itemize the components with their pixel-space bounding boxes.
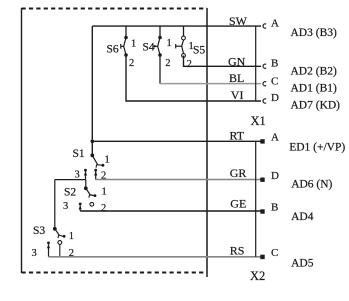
svg-text:C: C — [271, 247, 278, 259]
S3 contact 3 — [47, 242, 50, 245]
dashed enclosure bottom edge — [22, 272, 206, 274]
switch S2 — [63, 186, 107, 214]
S1 contact 2 — [94, 169, 97, 172]
connector X2 pin B — [260, 209, 264, 213]
svg-text:1: 1 — [102, 187, 107, 198]
svg-text:S5: S5 — [193, 45, 205, 57]
svg-text:AD1 (B1): AD1 (B1) — [291, 82, 337, 94]
switch S3 — [32, 225, 74, 259]
connector X1 bus — [255, 26, 257, 101]
node: junction RT — [91, 140, 95, 144]
svg-text:B: B — [271, 57, 278, 69]
svg-text:3: 3 — [32, 248, 37, 259]
wire: left vertical from SW to S1 — [91, 26, 93, 155]
svg-text:AD5: AD5 — [291, 257, 314, 269]
svg-text:1: 1 — [167, 38, 172, 49]
wire SW — [92, 25, 261, 27]
connector separation line — [206, 8, 208, 277]
svg-text:A: A — [271, 17, 279, 29]
svg-text:X2: X2 — [250, 269, 265, 283]
svg-text:1: 1 — [69, 231, 74, 242]
svg-text:RS: RS — [230, 244, 245, 258]
connector X2 pin A — [260, 139, 264, 143]
connector X1 pin D — [263, 99, 266, 103]
wire GN — [184, 56, 262, 67]
wire RT — [92, 140, 261, 142]
svg-text:1: 1 — [131, 39, 136, 50]
svg-text:AD4: AD4 — [291, 211, 314, 223]
connector X2 pin D — [260, 178, 264, 182]
wire: S1 pos3 bus to S2/S3 — [55, 179, 86, 181]
connector X1 pin B — [263, 64, 266, 68]
svg-text:D: D — [271, 170, 279, 182]
connector X2 pin C — [260, 255, 264, 259]
svg-text:AD3 (B3): AD3 (B3) — [291, 27, 337, 39]
svg-text:2: 2 — [129, 58, 134, 69]
svg-text:S6: S6 — [107, 44, 119, 56]
switch S6 — [107, 26, 137, 69]
wire BL — [159, 55, 161, 84]
switch S1 — [73, 148, 110, 182]
enclosure left edge — [21, 8, 23, 273]
svg-text:1: 1 — [105, 155, 110, 166]
dashed enclosure top edge — [22, 8, 208, 10]
svg-text:BL: BL — [229, 71, 244, 85]
svg-text:3: 3 — [75, 170, 80, 181]
svg-text:RT: RT — [230, 129, 245, 143]
svg-text:D: D — [271, 92, 279, 104]
wire GE — [80, 210, 261, 212]
svg-text:B: B — [271, 201, 278, 213]
svg-text:2: 2 — [187, 59, 192, 70]
svg-text:AD6 (N): AD6 (N) — [291, 178, 332, 190]
wire RS — [49, 256, 262, 258]
svg-text:2: 2 — [101, 203, 106, 214]
svg-text:VI: VI — [231, 88, 244, 102]
svg-text:AD7 (KD): AD7 (KD) — [291, 99, 341, 111]
svg-text:2: 2 — [165, 58, 170, 69]
svg-text:S2: S2 — [64, 187, 76, 199]
connector X2 bus — [255, 141, 257, 256]
svg-text:X1: X1 — [251, 114, 266, 128]
connector X1 pin C — [263, 82, 266, 86]
svg-text:SW: SW — [229, 14, 248, 28]
svg-text:S1: S1 — [73, 148, 85, 160]
S1 contact 3 — [84, 169, 87, 172]
svg-text:ED1 (+/VP): ED1 (+/VP) — [289, 141, 345, 153]
svg-text:GR: GR — [230, 166, 247, 180]
svg-text:S4: S4 — [143, 42, 155, 54]
svg-text:C: C — [271, 75, 278, 87]
svg-text:AD2 (B2): AD2 (B2) — [291, 65, 337, 77]
svg-text:GN: GN — [228, 54, 246, 68]
svg-text:GE: GE — [230, 197, 246, 211]
connector X1 pin A — [263, 24, 266, 28]
wire GR — [96, 179, 261, 181]
S3 contact 2 (circle) — [58, 241, 62, 245]
switch S5 — [176, 26, 206, 70]
svg-text:S3: S3 — [33, 225, 45, 237]
svg-text:A: A — [271, 131, 279, 143]
svg-text:3: 3 — [63, 201, 68, 212]
wire VI — [126, 55, 261, 101]
switch S4 — [143, 26, 172, 69]
S2 contact 2 (circle) — [90, 202, 94, 206]
S2 contact 3 — [79, 203, 82, 206]
